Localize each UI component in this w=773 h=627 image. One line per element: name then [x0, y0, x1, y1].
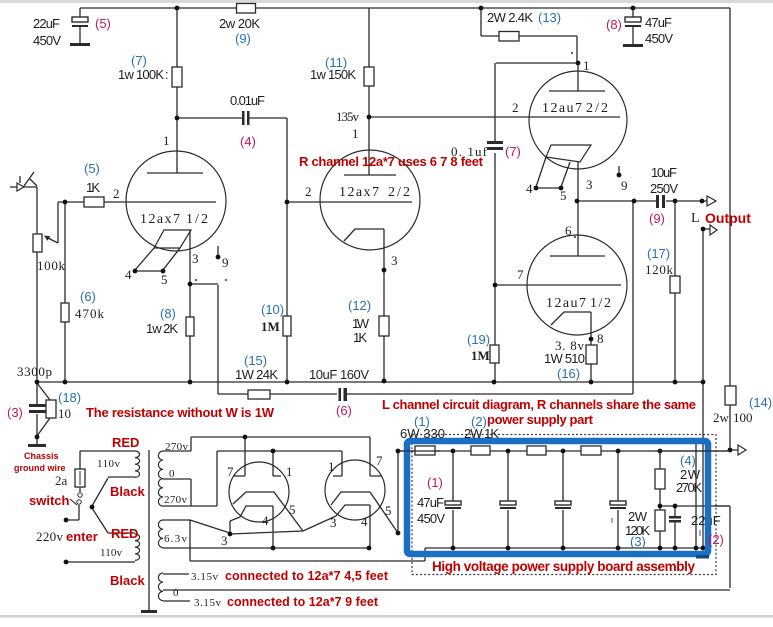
svg-text:110v: 110v	[97, 458, 121, 470]
svg-text:(11): (11)	[325, 55, 347, 70]
svg-text:100: 100	[733, 410, 753, 425]
svg-text:5: 5	[560, 188, 567, 203]
svg-text:100k: 100k	[37, 258, 66, 273]
svg-text:5: 5	[385, 503, 392, 518]
svg-text:1: 1	[583, 58, 590, 73]
svg-text:Chassis: Chassis	[24, 451, 59, 461]
svg-text:Output: Output	[705, 210, 751, 226]
svg-text:(3): (3)	[630, 534, 646, 549]
svg-text:(1): (1)	[427, 475, 443, 490]
svg-text:7: 7	[517, 267, 524, 282]
svg-text:1W 510: 1W 510	[544, 351, 585, 366]
svg-text:2w 20K: 2w 20K	[219, 16, 260, 31]
svg-text:power supply part: power supply part	[487, 412, 594, 427]
svg-text:The resistance without W is 1W: The resistance without W is 1W	[86, 405, 275, 420]
svg-text:(8): (8)	[606, 17, 622, 32]
svg-text:0: 0	[169, 468, 175, 480]
svg-text:R channel 12a*7 uses 6 7 8 fee: R channel 12a*7 uses 6 7 8 feet	[299, 154, 484, 169]
svg-text:7: 7	[227, 464, 234, 479]
svg-text:12au7: 12au7	[542, 101, 582, 116]
svg-text:10uF: 10uF	[651, 165, 677, 180]
svg-text:(10): (10)	[261, 302, 284, 317]
svg-text:(13): (13)	[538, 10, 561, 25]
svg-text:High voltage power supply boar: High voltage power supply board assembly	[432, 559, 695, 574]
svg-text:4: 4	[125, 267, 132, 282]
svg-text:0.01uF: 0.01uF	[230, 93, 265, 108]
svg-text:450V: 450V	[417, 511, 445, 526]
svg-text:10: 10	[58, 406, 71, 421]
svg-text:135v: 135v	[336, 109, 360, 124]
svg-text:470k: 470k	[75, 306, 105, 321]
svg-text:(6): (6)	[336, 403, 352, 418]
svg-text:1W: 1W	[352, 316, 370, 331]
svg-text:(6): (6)	[80, 289, 96, 304]
svg-text:5: 5	[289, 502, 296, 517]
svg-text:9: 9	[621, 178, 628, 193]
svg-text:450V: 450V	[645, 31, 673, 46]
svg-text:3: 3	[391, 253, 398, 268]
svg-text::: :	[165, 67, 169, 82]
svg-text:2w: 2w	[713, 410, 730, 425]
svg-text:1: 1	[352, 126, 359, 141]
svg-text:L: L	[691, 211, 700, 226]
svg-text:270K: 270K	[676, 480, 702, 495]
svg-text:Black: Black	[110, 484, 145, 499]
svg-text:(14): (14)	[749, 395, 772, 410]
svg-text:6: 6	[565, 223, 572, 238]
svg-text:1w 100K: 1w 100K	[118, 67, 164, 82]
svg-text:6.3v: 6.3v	[164, 533, 188, 545]
svg-text:2W 2.4K: 2W 2.4K	[487, 10, 533, 25]
svg-text:Black: Black	[110, 573, 145, 588]
svg-text:2/2: 2/2	[388, 185, 410, 200]
svg-text:3: 3	[221, 533, 228, 548]
svg-text:12ax7: 12ax7	[339, 185, 379, 200]
svg-text:(19): (19)	[467, 332, 490, 347]
svg-text:4: 4	[262, 513, 269, 528]
svg-text:1K: 1K	[353, 330, 367, 345]
svg-text:3.15v: 3.15v	[194, 597, 222, 609]
svg-text:(9): (9)	[649, 211, 665, 226]
svg-text:1M: 1M	[471, 348, 490, 363]
svg-text:connected to 12a*7 9 feet: connected to 12a*7 9 feet	[227, 595, 379, 609]
svg-text:110v: 110v	[100, 547, 123, 559]
svg-text:5: 5	[161, 272, 168, 287]
svg-text:(5): (5)	[95, 16, 111, 31]
svg-text:3: 3	[192, 251, 199, 266]
svg-text:(3): (3)	[7, 405, 23, 420]
svg-text:(8): (8)	[160, 306, 176, 321]
svg-text:1M: 1M	[261, 319, 280, 334]
svg-text:0: 0	[173, 587, 179, 599]
svg-text:(9): (9)	[235, 31, 251, 46]
svg-text:4: 4	[361, 514, 368, 529]
svg-text:(16): (16)	[557, 366, 580, 381]
svg-text:4: 4	[526, 181, 533, 196]
svg-text:switch: switch	[29, 493, 70, 508]
svg-text:3: 3	[330, 515, 337, 530]
svg-text:(2): (2)	[708, 532, 724, 547]
svg-text:(15): (15)	[244, 353, 267, 368]
svg-text:connected to 12a*7 4,5 feet: connected to 12a*7 4,5 feet	[225, 569, 389, 583]
svg-text:250V: 250V	[650, 181, 678, 196]
svg-text:2a: 2a	[55, 473, 68, 488]
svg-text:1/2: 1/2	[590, 296, 611, 311]
svg-text:12ax7: 12ax7	[140, 212, 180, 227]
svg-text:L channel circuit diagram, R c: L channel circuit diagram, R channels sh…	[382, 397, 696, 412]
svg-text:(18): (18)	[58, 390, 81, 405]
svg-text:7: 7	[376, 453, 383, 468]
svg-text:(4): (4)	[680, 453, 696, 468]
svg-text:1/2: 1/2	[186, 212, 208, 227]
svg-text:9: 9	[222, 255, 229, 270]
svg-text:47uF: 47uF	[645, 15, 672, 30]
svg-text:RED: RED	[112, 435, 139, 450]
svg-text:120k: 120k	[645, 262, 674, 277]
svg-text:enter: enter	[66, 529, 98, 544]
svg-text:10uF 160V: 10uF 160V	[309, 367, 369, 382]
svg-text:270v: 270v	[164, 494, 188, 506]
svg-text:1w 2K: 1w 2K	[146, 321, 178, 336]
svg-text:1K: 1K	[86, 180, 100, 195]
svg-text:3.15v: 3.15v	[191, 571, 219, 583]
svg-text:2: 2	[512, 100, 519, 115]
svg-text:47uF: 47uF	[417, 495, 444, 510]
svg-text:(12): (12)	[348, 298, 371, 313]
svg-text:(7): (7)	[131, 53, 147, 68]
svg-text:(17): (17)	[647, 246, 670, 261]
svg-text:RED: RED	[111, 526, 138, 541]
svg-text:(2): (2)	[471, 414, 487, 429]
svg-text:2W: 2W	[628, 509, 648, 524]
svg-text:1: 1	[286, 464, 293, 479]
svg-text:2: 2	[113, 186, 120, 201]
svg-text:450V: 450V	[33, 33, 61, 48]
svg-text:22uF: 22uF	[33, 16, 60, 31]
svg-text:270v: 270v	[165, 441, 189, 453]
svg-text:1W 24K: 1W 24K	[235, 367, 278, 382]
svg-text:3300p: 3300p	[17, 364, 52, 379]
svg-text:(4): (4)	[240, 134, 256, 149]
svg-text:8: 8	[597, 331, 604, 346]
svg-text:(5): (5)	[84, 161, 100, 176]
svg-text:1: 1	[328, 459, 335, 474]
svg-text:(1): (1)	[414, 414, 430, 429]
svg-text:(7): (7)	[505, 144, 521, 159]
svg-text:ground wire: ground wire	[14, 463, 66, 473]
svg-text:12au7: 12au7	[546, 296, 586, 311]
svg-text:1: 1	[163, 133, 170, 148]
svg-text:2/2: 2/2	[586, 101, 608, 116]
svg-text:3: 3	[586, 177, 593, 192]
svg-text:2: 2	[305, 184, 312, 199]
svg-text:220v: 220v	[36, 529, 64, 544]
